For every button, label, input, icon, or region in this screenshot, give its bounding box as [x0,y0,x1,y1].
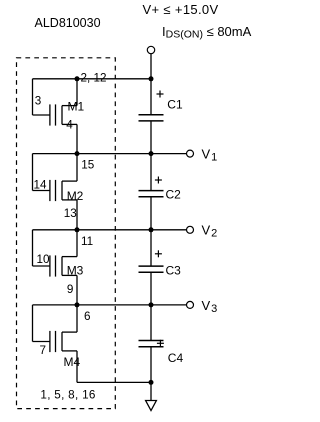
svg-text:C3: C3 [166,264,182,278]
svg-text:M4: M4 [64,355,81,369]
wire rail node 1,5,8,16 (bottom) [77,381,151,383]
svg-text:11: 11 [81,235,93,248]
ground [146,401,157,411]
svg-text:V+ ≤ +15.0V: V+ ≤ +15.0V [143,2,219,17]
junction node 6 at M3 source [75,302,80,307]
terminal V1 [187,150,194,157]
wire M3 source to node 6 [76,275,78,305]
capacitor C3 [139,230,164,305]
capacitor C2 [139,154,164,230]
svg-text:6: 6 [84,310,91,323]
transistor M2 [33,154,78,202]
wire rail node 2,12 (top) [33,78,152,80]
junction node 11 at M2 source [75,227,80,232]
junction node 15 at C1/C2 [149,151,154,156]
junction node 6 at C3/C4 [149,302,154,307]
wire bottom rail to ground [150,382,152,400]
wire rail node 15 / V1 [33,153,187,155]
transistor M1 [33,79,78,126]
capacitor C1 [139,79,164,154]
terminal V2 [187,226,194,233]
svg-text:14: 14 [34,178,48,191]
wire M2 drain to node 15 [76,154,78,182]
junction node 2,12 at M1 drain [75,76,80,81]
svg-text:2, 12: 2, 12 [81,72,107,85]
svg-text:10: 10 [37,253,51,266]
svg-text:9: 9 [67,283,74,296]
chip boundary dashed box U1 ALD810030 [17,58,116,409]
junction node 2,12 at C1 [149,76,154,81]
svg-text:4: 4 [66,118,73,131]
transistor M4 [33,305,78,352]
svg-text:M2: M2 [67,189,84,203]
svg-text:C4: C4 [168,351,184,365]
svg-text:ALD810030: ALD810030 [35,16,101,30]
C2 polarity plus [155,177,162,184]
wire M3 drain to node 11 [76,230,78,257]
wire V+ terminal to node 2,12 [150,54,152,79]
svg-text:C1: C1 [167,98,183,112]
junction node 11 at C2/C3 [149,227,154,232]
C4 polarity plus [157,340,164,347]
svg-text:3: 3 [35,95,42,108]
wire rail node 11 / V2 [33,229,187,231]
svg-text:15: 15 [81,159,95,172]
wire rail node 6 / V3 [33,304,187,306]
svg-text:7: 7 [40,344,47,357]
capacitor C4 [139,305,164,383]
wire M2 source to node 11 [76,200,78,230]
svg-text:1, 5, 8, 16: 1, 5, 8, 16 [40,388,95,401]
junction bottom node at C4/ground [149,380,154,385]
wire M4 source to bottom rail [76,351,78,383]
wire M4 drain to node 6 [76,305,78,332]
C1 polarity plus [157,91,164,98]
wire M1 source to node 15 [76,124,78,153]
C3 polarity plus [155,250,162,257]
wire M1 drain to node 2,12 [76,79,78,106]
svg-text:C2: C2 [166,187,182,201]
terminal V3 [187,301,194,308]
svg-text:M1: M1 [68,100,85,114]
terminal V+ [147,46,154,53]
svg-text:M3: M3 [67,264,84,278]
junction node 15 at M1 source [75,151,80,156]
transistor M3 [33,230,78,277]
svg-text:13: 13 [64,207,77,220]
